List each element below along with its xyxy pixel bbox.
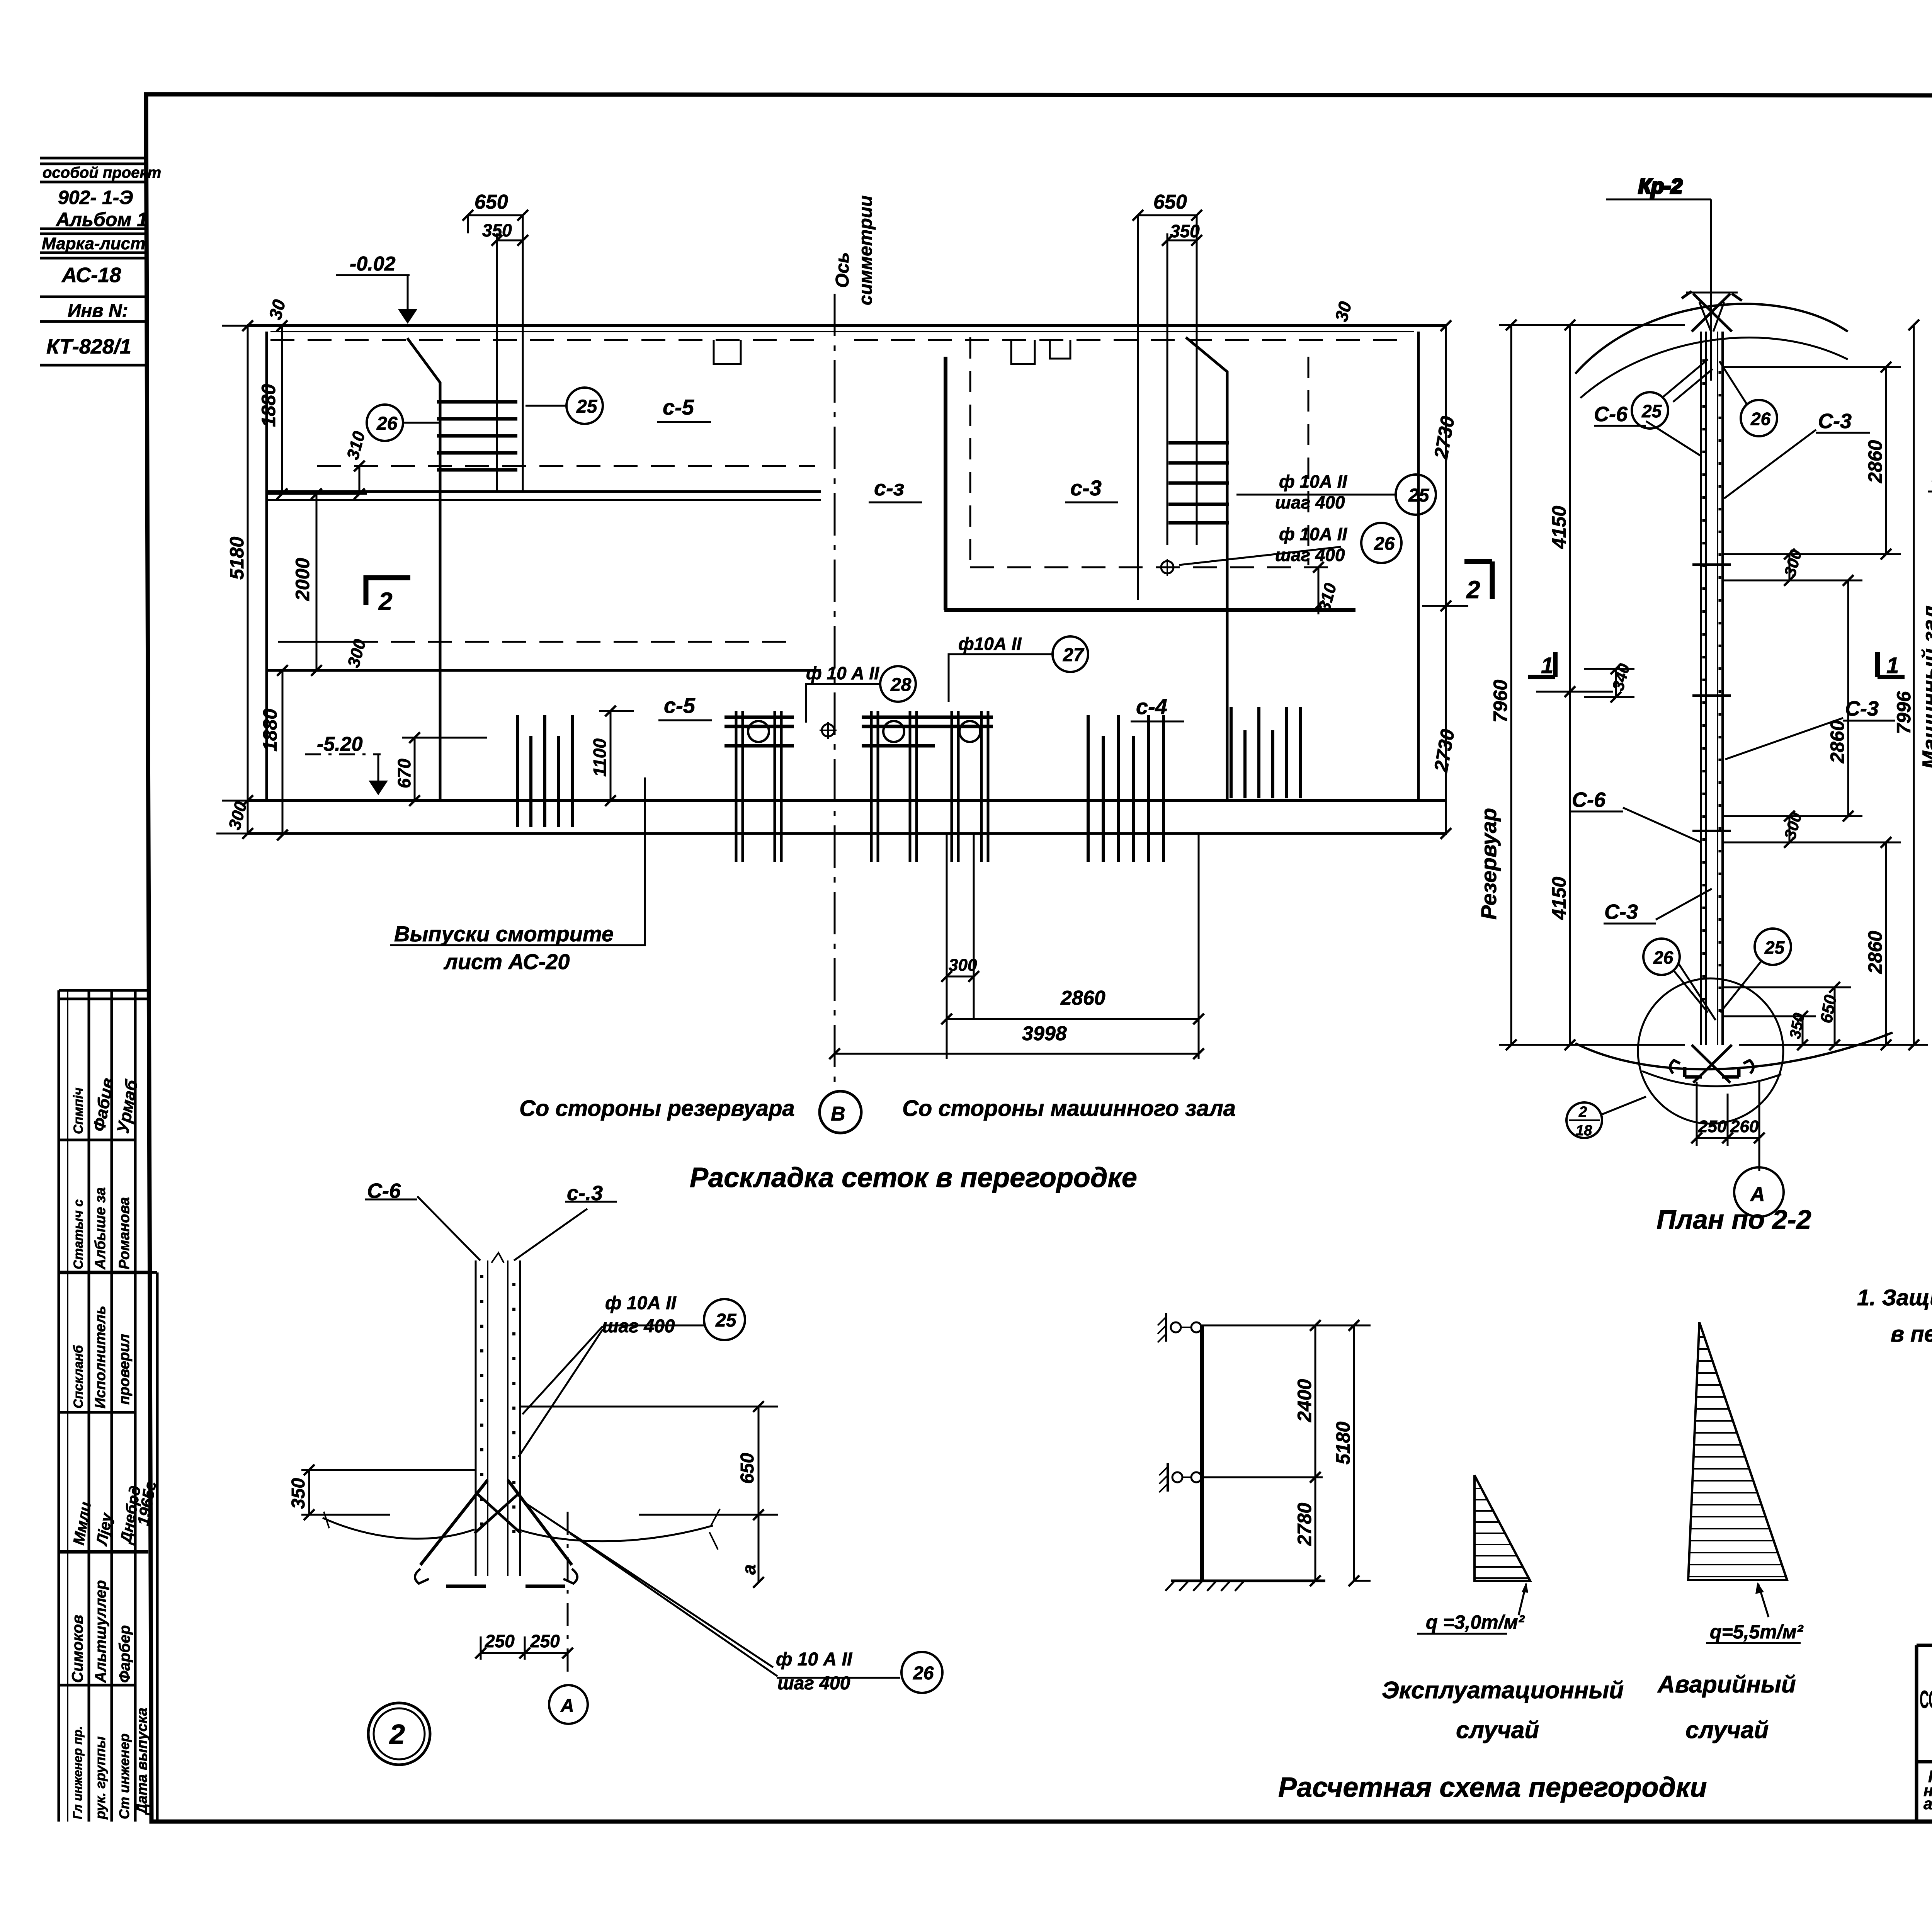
- svg-text:2860: 2860: [1827, 720, 1848, 764]
- svg-text:С-3: С-3: [1845, 697, 1879, 720]
- svg-text:28: 28: [890, 675, 912, 695]
- svg-text:ф 10 А II: ф 10 А II: [776, 1649, 853, 1670]
- svg-text:650: 650: [474, 191, 508, 213]
- svg-text:ф10А II: ф10А II: [958, 634, 1022, 654]
- svg-text:Альбом 1: Альбом 1: [55, 209, 148, 230]
- svg-text:Марка-лист: Марка-лист: [42, 234, 145, 253]
- svg-text:с-3: с-3: [1070, 476, 1102, 500]
- svg-text:Ст инженер: Ст инженер: [116, 1733, 132, 1819]
- svg-text:Выпуски смотрите: Выпуски смотрите: [394, 922, 614, 946]
- svg-text:2000: 2000: [292, 558, 313, 601]
- svg-text:250: 250: [1698, 1117, 1727, 1136]
- svg-text:а: а: [739, 1564, 760, 1575]
- svg-text:650: 650: [1153, 191, 1187, 213]
- svg-text:670: 670: [394, 759, 414, 788]
- svg-text:симметрии: симметрии: [855, 196, 876, 305]
- svg-text:25: 25: [1408, 485, 1430, 506]
- svg-text:рук. группы: рук. группы: [92, 1736, 108, 1820]
- svg-text:Спскланб: Спскланб: [71, 1345, 86, 1408]
- svg-text:350: 350: [288, 1478, 309, 1509]
- svg-text:350: 350: [1170, 221, 1200, 241]
- svg-text:случай: случай: [1685, 1717, 1769, 1744]
- svg-text:Симоков: Симоков: [69, 1615, 86, 1683]
- svg-text:Спмпіч: Спмпіч: [71, 1087, 86, 1134]
- svg-text:2: 2: [389, 1719, 405, 1750]
- svg-text:26: 26: [376, 413, 398, 434]
- svg-text:q=5,5т/м²: q=5,5т/м²: [1710, 1621, 1804, 1643]
- svg-text:q =3,0т/м²: q =3,0т/м²: [1426, 1611, 1525, 1633]
- svg-text:ф 10 А II: ф 10 А II: [806, 663, 879, 683]
- svg-text:26: 26: [1750, 409, 1771, 429]
- svg-text:шаг 400: шаг 400: [1275, 492, 1345, 512]
- svg-text:2860: 2860: [1060, 987, 1105, 1009]
- svg-text:25: 25: [715, 1310, 737, 1331]
- svg-text:особой проект: особой проект: [43, 164, 161, 181]
- svg-text:2: 2: [1466, 576, 1480, 604]
- svg-text:С-3: С-3: [1604, 900, 1638, 924]
- svg-text:300: 300: [949, 956, 977, 975]
- svg-text:1. Защитный слой бетона для: 1. Защитный слой бетона для арматуры: [1857, 1285, 1932, 1310]
- svg-text:ф 10А II: ф 10А II: [1279, 524, 1347, 544]
- svg-text:Кр-2: Кр-2: [1638, 175, 1682, 198]
- svg-text:Эксплуатационный: Эксплуатационный: [1382, 1677, 1624, 1704]
- svg-text:Ось: Ось: [832, 252, 853, 288]
- svg-text:1100: 1100: [590, 738, 610, 777]
- svg-text:7960: 7960: [1490, 680, 1511, 723]
- svg-text:С-6: С-6: [1594, 403, 1628, 426]
- svg-text:Аварийный: Аварийный: [1657, 1671, 1796, 1698]
- svg-text:350: 350: [482, 220, 512, 240]
- svg-text:650: 650: [737, 1453, 758, 1484]
- svg-text:Дата выпуска: Дата выпуска: [134, 1708, 150, 1815]
- svg-text:4150: 4150: [1548, 877, 1570, 920]
- svg-text:5180: 5180: [1332, 1422, 1354, 1465]
- svg-text:Расчетная схема перегородки: Расчетная схема перегородки: [1278, 1772, 1707, 1803]
- svg-text:250: 250: [485, 1631, 515, 1651]
- svg-text:агрегата с насосами: агрегата с насосами: [1923, 1795, 1932, 1813]
- svg-text:Резервуар: Резервуар: [1476, 808, 1501, 920]
- svg-text:случай: случай: [1456, 1717, 1539, 1744]
- svg-text:1880: 1880: [258, 384, 279, 427]
- svg-text:250: 250: [530, 1631, 560, 1651]
- svg-text:2860: 2860: [1864, 440, 1886, 483]
- svg-text:С-6: С-6: [367, 1179, 401, 1203]
- svg-text:2780: 2780: [1294, 1503, 1315, 1546]
- svg-text:3998: 3998: [1022, 1022, 1067, 1045]
- svg-text:Машинный зал: Машинный зал: [1918, 606, 1932, 769]
- svg-text:В: В: [831, 1103, 845, 1125]
- svg-text:с-з: с-з: [874, 476, 904, 500]
- svg-text:Фарбер: Фарбер: [116, 1625, 133, 1683]
- svg-text:25: 25: [1641, 401, 1662, 421]
- svg-text:Албыше за: Албыше за: [92, 1187, 109, 1270]
- svg-text:Альтшуллер: Альтшуллер: [92, 1580, 109, 1683]
- svg-text:А: А: [1750, 1183, 1765, 1206]
- svg-text:25: 25: [1764, 937, 1785, 958]
- svg-text:Романова: Романова: [116, 1197, 133, 1269]
- svg-text:с-5: с-5: [663, 395, 694, 419]
- svg-text:Раскладка сеток в перегород: Раскладка сеток в перегородке: [690, 1162, 1137, 1193]
- svg-text:СОЮЗВОДОКАНАЛПРОЕКТ: СОЮЗВОДОКАНАЛПРОЕКТ: [1920, 1686, 1932, 1713]
- svg-text:ф 10А II: ф 10А II: [605, 1293, 677, 1313]
- svg-text:18: 18: [1576, 1123, 1592, 1139]
- svg-text:1: 1: [1886, 653, 1899, 678]
- svg-text:7996: 7996: [1893, 691, 1915, 734]
- svg-text:-5.20: -5.20: [317, 733, 363, 755]
- svg-text:26: 26: [1653, 947, 1673, 968]
- svg-text:шаг 400: шаг 400: [602, 1316, 675, 1337]
- svg-text:25: 25: [576, 396, 598, 417]
- svg-text:шаг 400: шаг 400: [1275, 545, 1345, 565]
- svg-text:Исполнитель: Исполнитель: [92, 1306, 109, 1408]
- svg-text:с-4: с-4: [1136, 694, 1167, 719]
- svg-text:1: 1: [1541, 653, 1553, 678]
- svg-text:С-3: С-3: [1818, 410, 1852, 433]
- svg-text:902- 1-Э: 902- 1-Э: [58, 187, 133, 208]
- svg-text:2400: 2400: [1294, 1379, 1315, 1422]
- svg-text:План по 2-2: План по 2-2: [1656, 1204, 1811, 1235]
- svg-text:с-.3: с-.3: [567, 1182, 603, 1205]
- svg-text:Статыч с: Статыч с: [71, 1199, 86, 1269]
- svg-text:260: 260: [1730, 1117, 1759, 1136]
- svg-text:лист АС-20: лист АС-20: [443, 949, 570, 974]
- svg-text:2: 2: [1578, 1104, 1587, 1120]
- svg-text:Со стороны резервуара: Со стороны резервуара: [519, 1096, 795, 1121]
- svg-text:2860: 2860: [1864, 931, 1886, 974]
- svg-text:1880: 1880: [259, 709, 281, 752]
- svg-text:2: 2: [378, 587, 393, 615]
- svg-text:А: А: [560, 1696, 574, 1716]
- svg-text:26: 26: [913, 1663, 934, 1684]
- svg-text:С-6: С-6: [1572, 788, 1606, 811]
- svg-text:26: 26: [1374, 534, 1395, 554]
- svg-text:-0.02: -0.02: [350, 253, 396, 275]
- svg-text:в перегородке принят 30: в перегородке принят 30мм.: [1891, 1322, 1932, 1347]
- svg-text:шаг 400: шаг 400: [777, 1673, 850, 1694]
- svg-text:Со стороны машинного зала: Со стороны машинного зала: [902, 1096, 1236, 1121]
- svg-text:Инв N:: Инв N:: [68, 301, 128, 321]
- svg-text:ф 10А II: ф 10А II: [1279, 471, 1347, 492]
- svg-text:5180: 5180: [226, 537, 248, 580]
- svg-text:4150: 4150: [1548, 506, 1570, 549]
- svg-text:КТ-828/1: КТ-828/1: [46, 335, 131, 358]
- svg-text:АС-18: АС-18: [61, 264, 121, 287]
- svg-text:27: 27: [1063, 645, 1085, 665]
- svg-text:проверил: проверил: [116, 1334, 133, 1405]
- svg-text:с-5: с-5: [664, 693, 696, 718]
- svg-text:Гл инженер пр.: Гл инженер пр.: [71, 1726, 85, 1819]
